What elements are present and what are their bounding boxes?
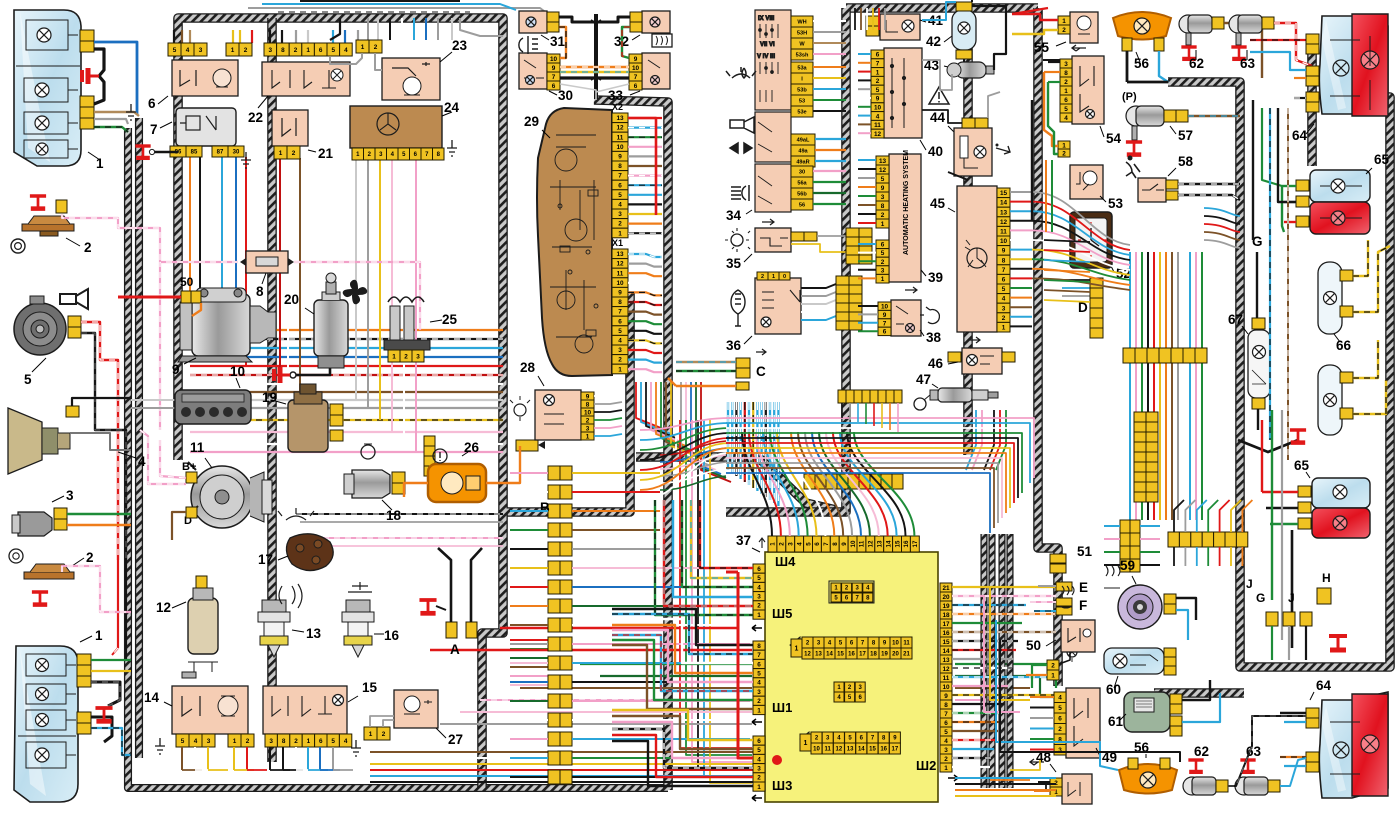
svg-text:85: 85 xyxy=(191,150,198,156)
svg-text:27: 27 xyxy=(448,732,463,747)
svg-text:8: 8 xyxy=(256,284,264,299)
svg-text:1: 1 xyxy=(1051,672,1055,679)
ground wire relay 7 xyxy=(152,151,178,153)
relay box 6 xyxy=(172,60,238,96)
wires 65 top xyxy=(1282,185,1296,187)
sensor 13 xyxy=(258,600,290,657)
svg-text:14: 14 xyxy=(144,690,160,705)
washer pump 62 top xyxy=(1179,15,1212,45)
oil pressure sensor 18 xyxy=(344,470,390,498)
connector 35 xyxy=(791,232,804,241)
relay box 49 xyxy=(1066,688,1100,758)
svg-text:3: 3 xyxy=(618,347,622,354)
svg-text:11: 11 xyxy=(190,440,205,455)
bottom corridor wires xyxy=(370,751,760,753)
wires 59 xyxy=(1176,598,1196,620)
svg-text:1: 1 xyxy=(361,44,365,51)
svg-text:10: 10 xyxy=(616,144,624,151)
svg-text:53sh: 53sh xyxy=(796,53,809,59)
svg-text:9: 9 xyxy=(172,362,180,377)
icon wiper 17 xyxy=(278,508,314,520)
svg-text:26: 26 xyxy=(464,440,480,455)
svg-text:46: 46 xyxy=(928,356,944,371)
svg-text:H: H xyxy=(1322,571,1331,585)
green wire 54-53 xyxy=(1048,82,1058,154)
long wires inside right loop from top xyxy=(1252,100,1254,240)
svg-text:12: 12 xyxy=(804,652,811,658)
wire fan into ECU top connector xyxy=(742,432,772,536)
connector 12 xyxy=(196,576,207,588)
svg-text:10: 10 xyxy=(632,65,640,72)
wires 56 top xyxy=(1126,51,1129,82)
svg-text:42: 42 xyxy=(926,34,941,49)
svg-text:21: 21 xyxy=(318,146,334,161)
svg-text:2: 2 xyxy=(761,274,764,280)
svg-text:3: 3 xyxy=(269,47,273,54)
black wire fork right xyxy=(1238,440,1298,452)
svg-text:58: 58 xyxy=(1178,154,1194,169)
svg-text:2: 2 xyxy=(1002,315,1006,322)
svg-text:8: 8 xyxy=(1064,70,1068,77)
label 19 xyxy=(272,400,286,404)
svg-text:2: 2 xyxy=(84,240,92,255)
svg-text:1: 1 xyxy=(795,646,799,653)
svg-text:20: 20 xyxy=(942,594,950,601)
svg-text:56: 56 xyxy=(799,203,805,209)
svg-text:44: 44 xyxy=(930,110,946,125)
svg-text:1: 1 xyxy=(772,274,775,280)
wire harness right side loop xyxy=(1168,82,1390,667)
wires between 30 33 xyxy=(560,66,629,68)
wire verticals from relays down to corridor xyxy=(189,157,191,330)
svg-text:9: 9 xyxy=(944,693,948,700)
connector 65 lower b xyxy=(1298,502,1311,513)
svg-text:13: 13 xyxy=(847,747,854,753)
wires bottom center to 59-61 area xyxy=(955,777,1056,779)
ground near A xyxy=(419,600,436,613)
gray wire bottom xyxy=(440,723,752,725)
svg-text:5: 5 xyxy=(944,729,948,736)
svg-text:Ш5: Ш5 xyxy=(772,606,792,621)
svg-text:7: 7 xyxy=(944,711,948,718)
alternator 11 (generator) xyxy=(188,462,272,528)
connector 65 lower c xyxy=(1298,518,1311,529)
license lamp 66 lower xyxy=(1318,365,1342,435)
control unit 45 xyxy=(957,186,997,332)
svg-text:AUTOMATIC HEATING SYSTEM: AUTOMATIC HEATING SYSTEM xyxy=(903,150,910,255)
svg-text:B+: B+ xyxy=(182,461,196,473)
connector 6 right xyxy=(226,43,252,56)
warning lamp 26 xyxy=(428,464,486,502)
svg-text:53b: 53b xyxy=(797,88,807,94)
connector tabs 34 lower xyxy=(791,166,813,177)
cigarette icon xyxy=(996,146,1010,154)
svg-text:30: 30 xyxy=(799,170,805,176)
svg-text:2: 2 xyxy=(881,259,885,266)
svg-text:55: 55 xyxy=(1034,40,1050,55)
horn icon xyxy=(60,289,88,309)
wires from ECU right to bottom lamps xyxy=(990,587,1030,700)
switch box 38 xyxy=(891,300,921,336)
svg-text:30: 30 xyxy=(233,150,240,156)
ground wire from valve 20 xyxy=(296,368,330,375)
connector stack right of 36 upper xyxy=(846,228,872,264)
svg-text:15: 15 xyxy=(837,652,844,658)
svg-text:2: 2 xyxy=(757,603,761,610)
label 10 xyxy=(236,378,240,388)
wires 31 32 loops xyxy=(559,17,596,22)
wires 65 bottom xyxy=(1262,491,1298,493)
svg-text:(P): (P) xyxy=(1122,91,1137,103)
label 26 xyxy=(462,452,468,456)
svg-text:10: 10 xyxy=(813,747,820,753)
washer pump 62 bottom xyxy=(1183,777,1216,795)
svg-text:2: 2 xyxy=(944,756,948,763)
svg-text:7: 7 xyxy=(757,652,761,659)
wires 61 xyxy=(1182,680,1210,700)
svg-text:8: 8 xyxy=(881,203,885,210)
icon 35 xyxy=(731,234,743,246)
wires 64 top xyxy=(1250,39,1306,41)
connector headlamp 1 bottom lower xyxy=(77,712,91,734)
svg-text:2: 2 xyxy=(374,44,378,51)
connector 39 lower xyxy=(876,240,889,283)
corridor wires down to yellow stack xyxy=(1120,520,1140,572)
svg-text:12: 12 xyxy=(156,600,171,615)
headlamp 64 top right xyxy=(1319,14,1388,116)
ground 62 bottom xyxy=(1188,760,1203,772)
svg-text:X1: X1 xyxy=(612,238,623,248)
svg-text:21: 21 xyxy=(942,585,950,592)
relay box 55 xyxy=(1070,12,1098,43)
svg-text:11: 11 xyxy=(874,122,881,129)
wires 45 right tabs xyxy=(1010,191,1032,193)
bundle left of B down to bottom corridor xyxy=(510,639,548,641)
svg-text:Ш4: Ш4 xyxy=(775,554,796,569)
svg-text:1: 1 xyxy=(1062,18,1066,25)
wire bundle diagonal from corridor into right loop top xyxy=(1204,208,1240,216)
connector on headlamp 1 bottom xyxy=(80,96,94,129)
connector 49 xyxy=(1054,692,1066,755)
lamp box 46 xyxy=(962,348,1002,374)
icons left of 34 xyxy=(726,67,756,201)
fuel pump 12 xyxy=(182,588,218,678)
svg-text:13: 13 xyxy=(879,158,887,165)
svg-text:Ш2: Ш2 xyxy=(916,758,936,773)
connector F xyxy=(1056,598,1072,606)
connector tabs 34 mid xyxy=(791,134,815,145)
texture bundle above ECU cyan striped verticals xyxy=(727,402,729,470)
svg-text:8: 8 xyxy=(1002,257,1006,264)
svg-text:10: 10 xyxy=(616,280,624,287)
wires B column left xyxy=(510,472,548,474)
svg-text:9: 9 xyxy=(634,56,638,63)
svg-text:1: 1 xyxy=(392,353,396,360)
wire bundle horizontal left corridor xyxy=(190,329,503,331)
instrument cluster 29 xyxy=(537,108,612,376)
svg-text:53a: 53a xyxy=(797,66,807,72)
thin loom trunks right of Sh2 xyxy=(980,534,987,788)
relay box 48 xyxy=(1062,774,1092,804)
wires headlamp bottom xyxy=(91,659,131,661)
svg-text:4: 4 xyxy=(796,542,803,546)
svg-text:14: 14 xyxy=(1000,200,1008,207)
svg-text:7: 7 xyxy=(634,74,638,81)
inline connector small xyxy=(516,440,538,451)
extra weave arcs center xyxy=(660,441,726,455)
fog lamp icon xyxy=(519,36,538,54)
svg-text:60: 60 xyxy=(1106,682,1121,697)
svg-text:3: 3 xyxy=(757,689,761,696)
ground sensor 2 xyxy=(30,196,46,209)
svg-text:13: 13 xyxy=(616,115,624,122)
svg-text:3: 3 xyxy=(269,738,273,745)
svg-text:3: 3 xyxy=(757,766,761,773)
svg-text:20: 20 xyxy=(892,652,899,658)
D stack xyxy=(1090,278,1103,338)
svg-text:4: 4 xyxy=(618,338,622,345)
relay box 53 xyxy=(1070,165,1103,199)
svg-text:4: 4 xyxy=(1058,695,1062,702)
svg-text:5: 5 xyxy=(757,747,761,754)
svg-text:3: 3 xyxy=(586,425,590,432)
svg-text:1: 1 xyxy=(618,366,622,373)
corridor vertical wires right-middle xyxy=(1129,252,1131,348)
grounds near 6 xyxy=(126,104,136,120)
wires 36 to stack xyxy=(801,284,836,288)
svg-text:19: 19 xyxy=(881,652,888,658)
wires G J H xyxy=(1271,626,1273,660)
svg-text:3: 3 xyxy=(944,747,948,754)
svg-text:15: 15 xyxy=(362,680,378,695)
svg-text:V IV III: V IV III xyxy=(757,54,775,60)
headlamp 64 bottom right xyxy=(1319,692,1388,798)
svg-text:10: 10 xyxy=(1000,238,1008,245)
corridor mid 2-col stack xyxy=(1134,412,1158,502)
svg-text:2: 2 xyxy=(586,417,590,424)
connector 31 xyxy=(547,12,559,32)
svg-text:8: 8 xyxy=(281,47,285,54)
svg-text:49a: 49a xyxy=(798,149,808,155)
svg-text:6: 6 xyxy=(148,96,156,111)
svg-text:5: 5 xyxy=(757,575,761,582)
svg-text:1: 1 xyxy=(618,230,622,237)
svg-text:49aL: 49aL xyxy=(797,138,810,144)
icon bulb 60 xyxy=(1067,647,1077,657)
svg-text:2: 2 xyxy=(382,731,386,738)
wires 54 to 53 xyxy=(1048,61,1060,63)
long horizontals lower-left corridor xyxy=(296,513,503,515)
svg-text:X2: X2 xyxy=(612,102,623,112)
wires top right from trunk 1038 xyxy=(1012,8,1048,14)
svg-text:6: 6 xyxy=(1064,97,1068,104)
wire harness left trunk B xyxy=(135,118,143,758)
svg-text:10: 10 xyxy=(942,684,950,691)
speed sensor 47 xyxy=(930,388,998,402)
svg-text:1: 1 xyxy=(876,69,880,76)
sensor 2 bottom (washer fluid level) xyxy=(24,564,74,579)
svg-text:9: 9 xyxy=(618,154,622,161)
arrow near 49 xyxy=(1030,759,1044,765)
connector 51 xyxy=(1050,554,1066,563)
label 24 xyxy=(442,112,452,116)
red dot Sh3 xyxy=(772,755,782,765)
ground 15 xyxy=(351,740,361,756)
wire bundle top from boxes 6 and 22 xyxy=(173,30,175,43)
svg-text:14: 14 xyxy=(942,648,950,655)
svg-text:11: 11 xyxy=(903,641,910,647)
svg-text:5: 5 xyxy=(618,192,622,199)
ignition coil 19 xyxy=(288,384,328,452)
ground right loop xyxy=(1329,636,1347,650)
svg-text:65: 65 xyxy=(1294,458,1310,473)
svg-text:67: 67 xyxy=(1228,312,1243,327)
connector column Sh2 xyxy=(940,583,952,772)
wires 27 xyxy=(370,716,394,727)
headlamp block 1 bottom-left xyxy=(14,646,78,802)
svg-text:9: 9 xyxy=(552,65,556,72)
yellow row above ECU xyxy=(804,474,903,489)
svg-text:IX VIII: IX VIII xyxy=(758,16,775,22)
connector 39 upper xyxy=(876,156,889,228)
icon washer mid xyxy=(279,584,302,608)
pink wires bottom xyxy=(480,699,752,701)
svg-text:J: J xyxy=(1288,591,1295,605)
wires X2 to trunk xyxy=(628,117,662,119)
ground 62 top xyxy=(1181,47,1196,59)
svg-text:65: 65 xyxy=(1374,152,1390,167)
svg-text:1: 1 xyxy=(757,784,761,791)
svg-text:10: 10 xyxy=(881,304,889,311)
svg-text:Ш3: Ш3 xyxy=(772,778,792,793)
arrow 34 xyxy=(762,219,774,225)
svg-text:45: 45 xyxy=(930,196,946,211)
ground 21 xyxy=(241,152,251,168)
svg-text:21: 21 xyxy=(903,652,910,658)
wires from top trunk at fusebox xyxy=(854,8,856,30)
svg-text:53e: 53e xyxy=(797,110,806,116)
horn 5 xyxy=(14,296,66,355)
svg-text:11: 11 xyxy=(825,747,832,753)
arrow C xyxy=(756,349,766,355)
black wire 56 to 64 corridor xyxy=(1127,81,1168,84)
svg-text:7: 7 xyxy=(883,320,887,327)
svg-text:7: 7 xyxy=(552,74,556,81)
key icon 36 xyxy=(731,290,745,326)
svg-text:3: 3 xyxy=(416,353,420,360)
svg-text:62: 62 xyxy=(1189,56,1204,71)
svg-text:5: 5 xyxy=(332,47,336,54)
corridor diag bundle to 45 xyxy=(1032,192,1130,245)
svg-text:53: 53 xyxy=(799,99,805,105)
wires X1 to trunk xyxy=(628,254,662,257)
svg-text:C: C xyxy=(756,364,766,379)
wires join bottom corridor xyxy=(182,769,202,771)
wires from row down xyxy=(841,403,843,418)
wires 50 xyxy=(1059,652,1070,664)
switch 58 xyxy=(1138,178,1166,202)
tail lamp 65 lower xyxy=(1312,478,1370,538)
switch 61 xyxy=(1124,692,1170,732)
wires 28 xyxy=(594,394,622,396)
icon temp xyxy=(348,582,372,592)
wire harness loop around node A xyxy=(482,512,503,788)
svg-text:7: 7 xyxy=(823,542,830,546)
svg-text:16: 16 xyxy=(384,628,400,643)
wire drops from relays 14 15 xyxy=(181,747,183,770)
connector 44 top xyxy=(962,118,975,128)
connector 41 xyxy=(866,16,879,36)
wire starter orange xyxy=(192,303,201,316)
svg-text:6: 6 xyxy=(883,329,887,336)
relay 7 xyxy=(176,108,236,146)
connector tabs 34 upper xyxy=(791,16,813,27)
blower motor 59 xyxy=(1118,585,1162,629)
connector 28 xyxy=(581,392,594,440)
ignition switch 36 xyxy=(755,278,801,334)
svg-text:2: 2 xyxy=(294,47,298,54)
svg-text:6: 6 xyxy=(319,738,323,745)
svg-text:12: 12 xyxy=(616,261,624,268)
svg-text:5: 5 xyxy=(1002,286,1006,293)
wires down right corridor from 53 55 xyxy=(1031,100,1033,220)
svg-text:64: 64 xyxy=(1292,128,1308,143)
svg-text:7: 7 xyxy=(618,309,622,316)
svg-text:8: 8 xyxy=(586,401,590,408)
wires node A xyxy=(438,548,451,622)
fuse box 40 xyxy=(884,48,922,138)
relay 44 xyxy=(954,128,992,176)
connector 64 top a xyxy=(1306,34,1319,54)
svg-text:15: 15 xyxy=(942,639,950,646)
svg-text:35: 35 xyxy=(726,256,742,271)
svg-text:56a: 56a xyxy=(797,181,807,187)
svg-text:5: 5 xyxy=(1064,106,1068,113)
label 8 xyxy=(262,273,266,284)
svg-text:1: 1 xyxy=(233,738,237,745)
connector 14 left xyxy=(176,734,215,747)
svg-text:4: 4 xyxy=(1002,296,1006,303)
svg-text:1: 1 xyxy=(881,276,885,283)
green wires center bottom xyxy=(580,663,752,665)
switch 57 xyxy=(1126,106,1164,140)
svg-text:4: 4 xyxy=(344,738,348,745)
svg-text:1: 1 xyxy=(586,433,590,440)
ECU inner connector grid D xyxy=(800,732,900,754)
wire verticals mid down to bottom corridor xyxy=(680,420,752,748)
connector sensor 2 xyxy=(56,200,67,213)
svg-text:14: 14 xyxy=(858,747,865,753)
svg-text:Ш1: Ш1 xyxy=(772,700,792,715)
svg-text:19: 19 xyxy=(942,603,950,610)
fuse 8 xyxy=(240,251,294,273)
svg-text:10: 10 xyxy=(892,641,899,647)
wires 55 xyxy=(1012,14,1058,20)
wires 58 xyxy=(1178,183,1240,185)
light switch 35 xyxy=(755,228,791,252)
svg-text:2: 2 xyxy=(1064,79,1068,86)
wires 39 left tabs xyxy=(858,159,876,161)
green wires right of ECU xyxy=(955,664,1056,688)
connector 61a xyxy=(1170,694,1182,714)
ground top-left headlamp xyxy=(82,68,99,84)
svg-text:6: 6 xyxy=(1002,277,1006,284)
svg-text:1: 1 xyxy=(1002,325,1006,332)
connector 61b xyxy=(1170,716,1182,736)
connector 30 xyxy=(547,54,560,90)
wire 57 xyxy=(1188,115,1240,117)
speaker 4 xyxy=(8,408,70,474)
